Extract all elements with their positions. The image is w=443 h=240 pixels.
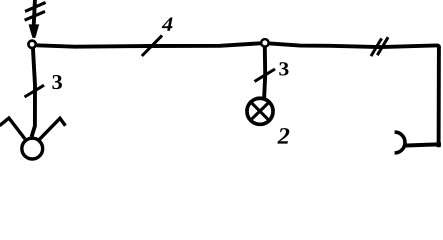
wire: incoming supply feeder drop xyxy=(34,0,35,26)
switch S1 (two-gang switch) body xyxy=(22,138,43,159)
switch S1 key arm right xyxy=(39,118,65,139)
feeder hatch mark 2 xyxy=(25,11,45,20)
hatch: slash 2 of 2 (2 wires) on socket run xyxy=(377,37,388,55)
label: 4 (wire count of main run) xyxy=(162,18,173,31)
feeder hatch mark 1 xyxy=(25,2,46,11)
switch S1 key arm left xyxy=(0,118,25,139)
hatch: slash (3 wires) on switch run xyxy=(25,85,45,97)
wire: node A down to switch xyxy=(32,48,36,137)
lamp EL1 cross stroke 1 xyxy=(250,101,271,122)
hatch: slash (3 wires) on lamp run xyxy=(255,69,276,82)
hatch: slash 1 of 2 (2 wires) on socket run xyxy=(371,38,382,56)
junction box node A xyxy=(28,41,35,48)
wire: node B to wall corner at right xyxy=(270,43,440,47)
wire: node B down to lamp xyxy=(264,47,265,100)
label: 3 (wire count, lamp run) xyxy=(279,62,288,75)
lamp EL1 cross stroke 2 xyxy=(250,101,271,121)
junction box node B xyxy=(261,39,269,47)
wire: down the right wall xyxy=(437,47,441,147)
socket X1 (wall receptacle, semicircle open left) xyxy=(395,132,405,153)
lamp EL1 (luminaire) body xyxy=(247,98,273,124)
arrow: supply direction into junction box A xyxy=(29,24,40,38)
wire: main run from node A to node B xyxy=(37,43,261,46)
wire: stub from wall to socket xyxy=(403,144,441,145)
label: 3 (wire count, switch run) xyxy=(52,75,62,89)
label: 2 (number of lamps) xyxy=(277,128,289,144)
hatch: slash (4 wires) on main run xyxy=(142,35,162,56)
